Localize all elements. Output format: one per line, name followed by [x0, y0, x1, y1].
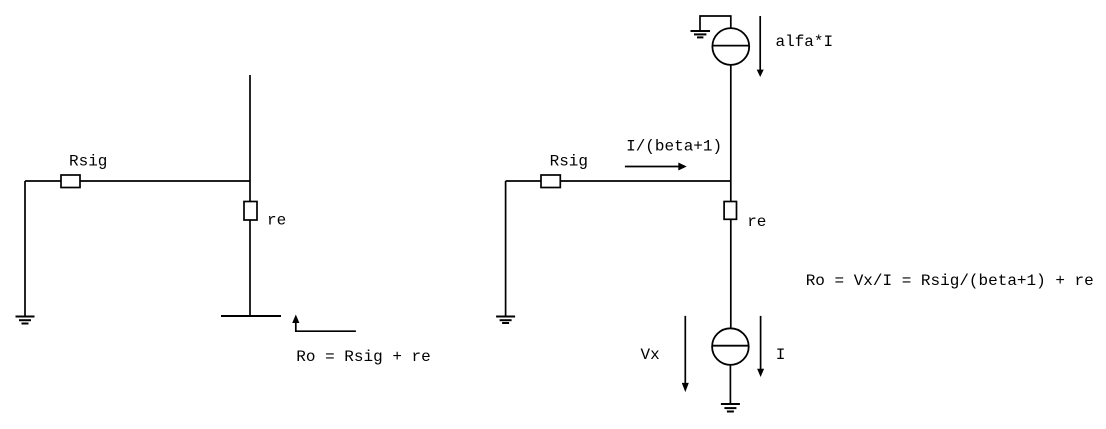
svg-text:Rsig: Rsig [69, 153, 107, 171]
resistor Rsig (left circuit) [61, 175, 80, 188]
svg-text:re: re [267, 212, 286, 230]
wire: right circuit down to ground [505, 181, 507, 316]
wire: left circuit vertical collector branch [249, 75, 251, 316]
resistor re (right circuit) [724, 202, 736, 220]
wire: current source down through node to re [730, 65, 732, 202]
wire: left circuit down to ground [24, 181, 26, 316]
arrow: I test current direction [757, 316, 764, 377]
arrow: base current I/(beta+1) direction [625, 163, 687, 171]
wire: re down to test current source [730, 219, 732, 328]
resistor Rsig (right circuit) [541, 175, 560, 188]
wire: top ground to current source alfa*I [700, 16, 731, 31]
wire: test source down to ground [729, 365, 731, 404]
svg-text:alfa*I: alfa*I [776, 33, 834, 51]
svg-text:Rsig: Rsig [550, 153, 588, 171]
pointer arrow to bottom rail (left circuit) [292, 315, 356, 332]
ground (left circuit) [16, 317, 35, 324]
svg-text:I: I [776, 346, 786, 364]
svg-text:re: re [747, 213, 766, 231]
svg-text:I/(beta+1): I/(beta+1) [626, 137, 722, 155]
svg-text:Ro = Rsig + re: Ro = Rsig + re [296, 348, 430, 366]
svg-text:Vx: Vx [641, 346, 660, 364]
ground (right circuit, left) [496, 317, 515, 324]
ground (right circuit, bottom) [721, 404, 740, 412]
wire: left circuit horizontal from source to node [25, 180, 250, 182]
current source alfa*I (circle) [712, 28, 749, 65]
arrow: Vx polarity [682, 316, 689, 392]
resistor re (left circuit) [244, 202, 257, 221]
svg-text:Ro = Vx/I = Rsig/(beta+1) + re: Ro = Vx/I = Rsig/(beta+1) + re [806, 272, 1094, 290]
wire: right circuit horizontal from source to node [506, 180, 731, 182]
node: left circuit bottom rail [221, 315, 281, 317]
current source I (circle) [712, 328, 749, 365]
ground (right circuit, top) [691, 31, 711, 37]
arrow: alfa*I current direction [757, 16, 764, 77]
